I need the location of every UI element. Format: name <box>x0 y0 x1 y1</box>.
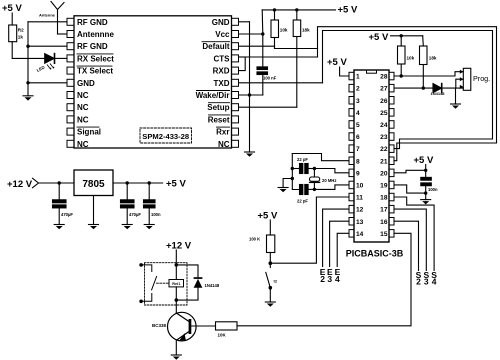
SPM2-433-28 type label <box>140 128 192 143</box>
+5V rail MCLR pull-ups <box>369 32 423 43</box>
relay contact <box>141 265 157 301</box>
svg-text:Antenne: Antenne <box>39 13 56 18</box>
Prog connector <box>460 68 490 90</box>
crystal 20MHz <box>310 169 337 190</box>
svg-text:100 K: 100 K <box>249 237 260 242</box>
node osc rail top cap <box>291 167 294 170</box>
capacitor 470uF output <box>121 183 142 225</box>
svg-text:+5 V: +5 V <box>166 179 186 190</box>
node osc rail gnd <box>291 177 294 180</box>
svg-text:26: 26 <box>380 98 388 105</box>
wire pin3 RF GND <box>28 45 67 47</box>
terminal E2 <box>320 267 326 284</box>
terminal S4 <box>431 270 437 287</box>
+5V rail for module pull-ups <box>262 5 358 16</box>
wire pin15 to base resistor <box>237 233 411 325</box>
wire Wake/Dir to gnd and cap <box>239 94 263 96</box>
svg-text:+5 V: +5 V <box>414 155 434 166</box>
node output cap1 <box>126 181 129 184</box>
ground Prog <box>451 104 461 109</box>
svg-text:3: 3 <box>356 98 360 105</box>
capacitor 22pF top <box>297 157 314 174</box>
svg-text:6: 6 <box>356 134 360 141</box>
svg-text:SPM2-433-28: SPM2-433-28 <box>142 132 189 141</box>
resistor 10K base <box>216 322 238 338</box>
wire pin20 to Vdd node <box>394 170 426 173</box>
svg-text:1N4148: 1N4148 <box>205 283 220 288</box>
PIC left pin boxes <box>349 72 354 237</box>
wire +5V to R2 <box>11 13 13 25</box>
svg-text:RF GND: RF GND <box>77 18 108 27</box>
inner loop TXD to PIC pin22 <box>323 31 493 149</box>
node pin28 pull-up <box>400 74 403 77</box>
svg-text:R2: R2 <box>18 28 24 33</box>
node Vcc rail <box>261 32 264 35</box>
wire Vcc pin <box>239 33 263 35</box>
wire GND pin to rail <box>239 21 250 23</box>
svg-text:470µF: 470µF <box>61 212 73 217</box>
terminal E4 <box>335 267 341 284</box>
wire pin8 to osc rail <box>292 154 349 161</box>
+5V label switch <box>258 211 278 236</box>
wire Setup pin to pull-down <box>239 106 297 108</box>
wire 7805 output <box>113 182 163 184</box>
node Vdd <box>424 169 427 172</box>
node pin27 pull-up <box>422 86 425 89</box>
svg-text:+12 V: +12 V <box>166 241 192 252</box>
+5V label PIC pin1 <box>327 57 347 68</box>
node switch bottom <box>269 286 273 290</box>
wire Default pin to pull-up and right <box>239 46 318 48</box>
svg-text:23: 23 <box>380 134 388 141</box>
svg-text:RF GND: RF GND <box>77 42 108 51</box>
+5V label supply output <box>166 179 186 190</box>
PIC pin numbers right <box>380 74 388 238</box>
svg-text:12: 12 <box>356 207 364 214</box>
svg-text:7805: 7805 <box>82 179 105 190</box>
svg-text:4: 4 <box>335 274 340 284</box>
wire top cap to pin9 <box>314 169 349 173</box>
capacitor 100nF <box>257 67 277 95</box>
svg-text:27: 27 <box>380 86 388 93</box>
wire Prog ground <box>455 88 457 104</box>
svg-text:Vcc: Vcc <box>215 30 230 39</box>
svg-text:8: 8 <box>356 158 360 165</box>
wire pin14 to E4 <box>337 233 349 266</box>
wire pin19 to gnd node <box>394 185 426 193</box>
svg-text:22: 22 <box>380 146 388 153</box>
svg-text:2: 2 <box>320 274 325 284</box>
svg-text:2: 2 <box>416 277 421 287</box>
osc ground branch <box>283 179 292 188</box>
relay contact terminal bottom <box>139 300 143 304</box>
node coil bottom <box>175 298 179 302</box>
SPM2 left pin labels <box>77 18 114 149</box>
wire R2 to LED row <box>12 42 45 59</box>
svg-text:1k: 1k <box>18 35 24 40</box>
svg-text:10: 10 <box>356 183 364 190</box>
svg-text:Setup: Setup <box>207 103 229 112</box>
svg-text:Wake/Dir: Wake/Dir <box>196 91 230 100</box>
svg-text:CTS: CTS <box>214 54 231 63</box>
wire pin11 to switch <box>270 197 349 263</box>
node Vss <box>424 191 427 194</box>
node pin6 rail <box>26 81 29 84</box>
SPM2 left overlines <box>77 54 113 127</box>
mechanical link dashed <box>157 282 170 284</box>
svg-text:NC: NC <box>77 91 89 100</box>
svg-text:1: 1 <box>356 74 360 81</box>
wire CTS stub <box>239 56 246 58</box>
wire pin1 RF GND <box>28 21 67 23</box>
wire pin16 to S2 <box>394 221 419 270</box>
relay coil Rel1 <box>169 265 184 300</box>
capacitor 100n output <box>144 183 161 225</box>
svg-text:10k: 10k <box>407 56 415 61</box>
SPM2 right overlines <box>197 42 230 127</box>
resistor R2 1k <box>9 25 24 42</box>
svg-text:Rel1: Rel1 <box>172 282 180 286</box>
+5V supply label top-left <box>2 3 22 14</box>
switch t2 <box>266 263 278 287</box>
ground rail module right <box>249 22 251 152</box>
ground Vdd cap <box>421 200 431 205</box>
svg-text:+5 V: +5 V <box>338 5 358 16</box>
svg-text:+5 V: +5 V <box>258 211 278 222</box>
svg-text:100 nF: 100 nF <box>263 76 277 81</box>
svg-text:RXD: RXD <box>213 67 230 76</box>
svg-text:10k: 10k <box>280 28 288 33</box>
terminal S2 <box>416 270 422 287</box>
svg-text:PICBASIC-3B: PICBASIC-3B <box>346 249 404 259</box>
wire switch to ground <box>269 288 271 302</box>
flyback diode 1N4148 <box>176 265 220 300</box>
wire TXD long run <box>239 82 323 84</box>
resistor 100K <box>249 235 275 263</box>
wire Prog middle pin <box>456 79 464 88</box>
svg-text:+5 V: +5 V <box>327 57 347 68</box>
svg-text:Reset: Reset <box>208 115 230 124</box>
ground module right <box>245 152 255 157</box>
ground 7805 <box>89 225 99 230</box>
svg-text:+5 V: +5 V <box>2 3 22 14</box>
svg-text:18: 18 <box>380 195 388 202</box>
ground cap 100n <box>144 225 154 230</box>
transistor BC338 <box>152 312 196 341</box>
svg-text:BC338: BC338 <box>152 323 167 328</box>
svg-text:Prog.: Prog. <box>473 74 490 83</box>
svg-text:NC: NC <box>77 115 89 124</box>
svg-text:13: 13 <box>356 219 364 226</box>
wire RXD long run <box>245 56 317 58</box>
+5V label Vdd pin20 <box>414 155 434 170</box>
node 18k top <box>295 8 298 11</box>
svg-text:22 pF: 22 pF <box>297 157 308 162</box>
svg-text:470µF: 470µF <box>129 212 141 217</box>
ground left rail <box>23 96 33 101</box>
wire +5V rail down to 100nF <box>261 10 264 67</box>
wire emitter <box>175 341 177 355</box>
wire collector <box>175 300 177 313</box>
svg-text:10K: 10K <box>218 333 227 338</box>
svg-text:GND: GND <box>212 18 230 27</box>
svg-text:7: 7 <box>356 146 360 153</box>
LED <box>36 54 55 73</box>
wire pin6 GND <box>28 82 67 84</box>
wire pin13 to E3 <box>330 221 349 266</box>
svg-text:Default: Default <box>202 42 229 51</box>
wire +5V to pin1 <box>340 67 349 76</box>
node input cap <box>58 181 61 184</box>
wire pin27 to diode <box>394 87 433 89</box>
ground cap input <box>54 225 64 230</box>
IC PICBASIC-3B body <box>354 70 389 242</box>
svg-text:1N4148: 1N4148 <box>431 91 446 96</box>
wire antenna to pin Antennne <box>58 33 68 35</box>
svg-text:15: 15 <box>380 231 388 238</box>
ground cap output <box>122 225 132 230</box>
svg-text:17: 17 <box>380 207 388 214</box>
svg-text:TXD: TXD <box>214 79 230 88</box>
svg-text:+5 V: +5 V <box>369 32 389 43</box>
wire bottom cap to pin10 <box>314 185 349 190</box>
svg-text:100n: 100n <box>428 187 438 192</box>
svg-text:16: 16 <box>380 219 388 226</box>
svg-text:NC: NC <box>77 140 89 149</box>
IC module SPM2-433-28 body <box>74 16 232 148</box>
svg-text:4: 4 <box>432 277 437 287</box>
svg-text:5: 5 <box>356 122 360 129</box>
ground osc <box>278 188 288 193</box>
svg-text:NC: NC <box>218 140 230 149</box>
resistor 10k pin28 pull-up <box>398 36 415 76</box>
PIC right pin boxes <box>389 72 394 237</box>
svg-text:2: 2 <box>356 86 360 93</box>
diode 1N4148 Prog <box>431 84 464 96</box>
node xtal bottom <box>313 188 316 191</box>
svg-text:RX Select: RX Select <box>77 54 114 63</box>
svg-text:3: 3 <box>424 277 429 287</box>
svg-text:25: 25 <box>380 110 388 117</box>
svg-text:+12 V: +12 V <box>7 179 33 190</box>
7805 ground lead <box>93 196 95 225</box>
wire LED to pin RX Select <box>55 57 67 59</box>
relay contact terminal top <box>139 263 143 267</box>
wire pin18 to S4 <box>394 197 434 270</box>
ground emitter <box>171 355 181 360</box>
regulator 7805 <box>74 170 113 196</box>
node 10k top <box>273 8 276 11</box>
svg-text:GND: GND <box>77 79 95 88</box>
SPM2 right pin boxes <box>232 18 239 147</box>
svg-text:24: 24 <box>380 122 388 129</box>
svg-text:3: 3 <box>327 274 332 284</box>
ground rail left <box>27 22 29 96</box>
svg-text:4: 4 <box>356 110 360 117</box>
terminal S3 <box>423 270 429 287</box>
svg-text:Antennne: Antennne <box>77 30 114 39</box>
svg-text:TX Select: TX Select <box>77 67 113 76</box>
PICBASIC-3B label <box>346 249 404 259</box>
capacitor 100n Vdd <box>421 170 438 199</box>
node coil top <box>175 263 179 267</box>
svg-text:NC: NC <box>77 103 89 112</box>
svg-text:18k: 18k <box>429 56 437 61</box>
svg-text:19: 19 <box>380 183 388 190</box>
terminal E3 <box>327 267 333 284</box>
svg-text:11: 11 <box>356 195 363 202</box>
+12V relay label <box>166 241 192 252</box>
svg-text:18k: 18k <box>302 28 310 33</box>
svg-text:22 pF: 22 pF <box>297 199 308 204</box>
antenna <box>39 2 64 35</box>
svg-text:Rxr: Rxr <box>216 128 229 137</box>
wire CTS-RXD tie <box>239 57 246 71</box>
svg-text:28: 28 <box>380 74 388 81</box>
wire osc rail to top cap <box>292 168 299 170</box>
input connector chevron <box>33 178 39 187</box>
wire pin17 to S3 <box>394 209 426 270</box>
wire input to 7805 <box>39 182 75 184</box>
PIC pin numbers left <box>356 74 364 238</box>
+12V input label <box>7 179 33 190</box>
capacitor 22pF bottom <box>297 185 314 204</box>
svg-text:14: 14 <box>356 231 364 238</box>
outer loop RXD to PIC pin21 <box>318 27 497 161</box>
capacitor 470uF input <box>53 183 74 225</box>
svg-text:21: 21 <box>380 158 388 165</box>
svg-text:100n: 100n <box>151 212 161 217</box>
wire pin28 to Prog <box>394 72 463 76</box>
wire +12V down <box>175 250 177 265</box>
osc left rail <box>292 154 299 190</box>
SPM2 left pin boxes <box>67 18 74 147</box>
svg-text:Signal: Signal <box>77 128 101 137</box>
wire base <box>191 325 215 327</box>
node Wake/Dir gnd rail <box>248 93 251 96</box>
ground switch <box>265 302 275 307</box>
node xtal top <box>313 167 316 170</box>
resistor 18k Setup pull-up <box>293 10 310 107</box>
node pin3 rail <box>26 45 29 48</box>
svg-text:20 MHz: 20 MHz <box>322 178 336 183</box>
resistor 18k pin27 pull-up <box>420 36 437 88</box>
svg-text:20: 20 <box>380 170 388 177</box>
node pull-up A top <box>400 34 403 37</box>
node switch top <box>269 261 273 265</box>
wire pin12 to E2 <box>323 209 349 266</box>
node output cap2 <box>148 181 151 184</box>
resistor 10k Default pull-up <box>271 10 288 49</box>
svg-text:9: 9 <box>356 170 360 177</box>
SPM2 right pin labels <box>196 18 231 149</box>
relay enclosure dashed <box>145 263 188 305</box>
